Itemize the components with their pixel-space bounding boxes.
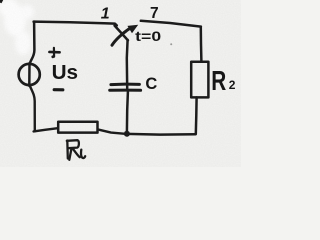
voltage source U_s circle [19, 64, 40, 85]
switch fixed stroke (contact 1 to capacitor node) [115, 26, 128, 41]
svg-text:t=0: t=0 [135, 28, 161, 44]
scan dot after t=0 [170, 43, 172, 45]
junction node [124, 131, 130, 137]
capacitor C top plate [111, 83, 139, 87]
switch arm (blade with arrow toward contact 2) [112, 29, 130, 46]
whiteout smudge top-left [0, 0, 34, 55]
wire right vertical below R2 [195, 97, 198, 134]
minus sign of source [54, 88, 63, 91]
resistor R2 body [191, 62, 208, 98]
scan speck top-left corner [0, 0, 3, 3]
wire right vertical above R2 [200, 27, 203, 62]
capacitor C bottom plate [110, 89, 141, 92]
voltage source inner line [28, 63, 31, 86]
svg-text:1: 1 [101, 6, 110, 23]
switch arrowhead [127, 25, 138, 34]
wire R1 to junction [98, 129, 127, 134]
wire top-left horizontal (corner to switch contact 1) [34, 22, 117, 26]
svg-text:Us: Us [52, 61, 79, 84]
paper background [0, 0, 241, 167]
wire bottom-right (junction to corner) [127, 133, 196, 136]
plus sign of source [49, 48, 59, 57]
wire capacitor to junction [127, 92, 128, 132]
label R1 (handwritten) [67, 140, 85, 160]
wire switch to capacitor [126, 40, 129, 89]
wire bottom-left (corner to R1) [34, 128, 58, 131]
svg-text:C: C [145, 75, 157, 93]
svg-text:7: 7 [150, 5, 159, 22]
wire top-right (switch contact 2 to corner) [141, 21, 201, 27]
wire left vertical (corner down to source) [30, 22, 34, 63]
resistor R1 body [58, 122, 97, 133]
wire left vertical below source [30, 86, 35, 131]
svg-text:2: 2 [229, 78, 236, 92]
svg-text:R: R [211, 65, 226, 96]
